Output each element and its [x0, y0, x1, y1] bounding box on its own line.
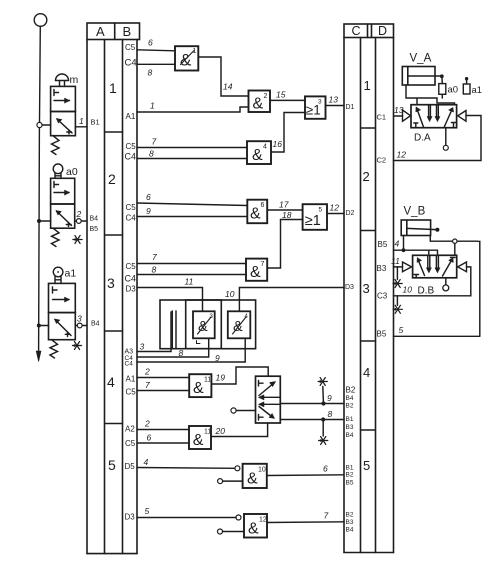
svg-text:19: 19 — [216, 373, 226, 383]
right block columns — [344, 38, 394, 553]
wire 11: D3 row to M1 set input — [137, 288, 203, 312]
wire C5 to gate U12 — [137, 442, 189, 444]
svg-text:14: 14 — [223, 82, 233, 92]
wire 8 out: impulse valve to C column — [280, 419, 344, 421]
svg-text:a0: a0 — [66, 166, 78, 178]
wire: valve m output to B1 — [75, 126, 87, 128]
wire 9: C4 row to M2 output — [137, 338, 245, 362]
and-gate U11 — [189, 374, 211, 397]
stub wire input2 — [223, 531, 245, 533]
wire 8: C4 row to M1 output — [137, 338, 209, 357]
wire 5: B5 to right riser — [394, 335, 480, 337]
svg-text:2: 2 — [264, 93, 268, 100]
wire C5 to gate U11 — [137, 390, 189, 392]
svg-text:8: 8 — [328, 409, 333, 419]
impulse valve left port circle — [231, 408, 236, 413]
wire junction to star below — [322, 422, 324, 437]
svg-text:7: 7 — [152, 137, 157, 147]
stub circle to valve top — [454, 243, 456, 255]
svg-text:B1: B1 — [91, 118, 100, 127]
svg-text:11: 11 — [204, 377, 211, 384]
left block A/B header — [87, 23, 140, 40]
pilot right of D.A — [458, 111, 466, 122]
cylinder V_B piston — [406, 221, 408, 236]
svg-text:C5: C5 — [125, 43, 136, 52]
svg-text:A2: A2 — [125, 425, 135, 434]
exhaust star DB left — [393, 280, 402, 288]
svg-text:m: m — [70, 74, 79, 86]
wire 10: C3 to D.B right pilot — [394, 267, 471, 296]
svg-text:B: B — [123, 24, 132, 39]
wire: supply to valve a1 — [39, 325, 49, 327]
wire D5 to gate U10 — [137, 467, 235, 470]
wire 3: A3 row to memory reset — [137, 312, 171, 352]
wire 14: U1 output to U2 — [198, 57, 248, 96]
svg-text:B5: B5 — [90, 226, 99, 233]
svg-text:6: 6 — [323, 464, 328, 474]
memory outer box K1 — [160, 300, 221, 349]
svg-text:4: 4 — [245, 314, 249, 320]
valve a1 — [49, 267, 76, 358]
wire C5 to gate U1 — [137, 50, 175, 51]
svg-text:C5: C5 — [126, 142, 137, 151]
svg-text:D3: D3 — [125, 513, 136, 522]
svg-text:6: 6 — [261, 202, 265, 209]
svg-text:17: 17 — [279, 200, 289, 210]
wire 18: U7 output to U5 — [267, 220, 302, 269]
svg-text:12: 12 — [259, 517, 267, 524]
svg-text:2: 2 — [144, 367, 150, 377]
port circle a1 output — [77, 323, 82, 328]
svg-text:&: & — [248, 521, 259, 538]
wire: supply to valve m — [42, 124, 51, 126]
vent circle D.A — [443, 145, 448, 150]
left block row dividers — [105, 132, 123, 424]
pipe cylinder VB rod side — [430, 236, 478, 242]
wire: valve a0 output to B4/B5 — [75, 220, 87, 222]
svg-text:12: 12 — [330, 203, 340, 213]
svg-text:B1: B1 — [346, 465, 354, 472]
wire 11: B3 to D.B left pilot — [394, 266, 403, 268]
svg-text:11: 11 — [185, 277, 194, 287]
cylinder V_A rod — [408, 75, 442, 77]
svg-text:V_A: V_A — [410, 53, 432, 65]
wire 17: U6 to OR U5 — [267, 209, 302, 211]
right riser wire — [479, 241, 481, 336]
and-gate U12 — [189, 426, 211, 449]
svg-text:C5: C5 — [126, 262, 137, 271]
svg-text:C: C — [352, 24, 361, 38]
svg-text:1: 1 — [109, 80, 117, 96]
svg-text:&: & — [193, 380, 204, 397]
wire 20: U12 output to impulse valve — [211, 423, 268, 437]
svg-text:C4: C4 — [125, 274, 137, 284]
wire 4: B5 to valve D.B — [394, 250, 438, 255]
svg-text:10: 10 — [258, 467, 266, 474]
svg-text:10: 10 — [225, 289, 235, 299]
svg-text:4: 4 — [395, 239, 400, 249]
svg-text:2: 2 — [144, 419, 150, 429]
svg-text:D2: D2 — [346, 210, 355, 217]
exhaust star a0 — [73, 236, 82, 244]
wire 12: U5 output to D2 — [327, 213, 344, 215]
svg-text:4: 4 — [263, 144, 267, 151]
star stub from wire 11 — [396, 267, 398, 280]
svg-text:A: A — [96, 24, 105, 39]
valve a0 — [51, 164, 75, 247]
or-gate U3 — [305, 96, 326, 118]
svg-text:9: 9 — [146, 206, 151, 216]
valve D.A body — [411, 105, 457, 128]
svg-text:8: 8 — [149, 149, 154, 159]
svg-text:C4: C4 — [125, 152, 137, 162]
supply start circle — [34, 14, 47, 27]
svg-text:8: 8 — [148, 68, 153, 78]
svg-text:D.B: D.B — [418, 286, 435, 297]
wire C5 to gate U7 — [137, 263, 246, 265]
svg-text:D1: D1 — [346, 104, 355, 111]
svg-text:5: 5 — [399, 325, 404, 335]
svg-text:B5: B5 — [378, 240, 388, 249]
wire 7 out to C column — [267, 521, 344, 524]
svg-text:5: 5 — [363, 458, 370, 473]
pipe cylinder VB left port — [403, 236, 405, 251]
svg-text:15: 15 — [276, 90, 286, 100]
svg-text:C5: C5 — [125, 439, 136, 448]
svg-text:12: 12 — [397, 150, 407, 160]
svg-text:B4: B4 — [346, 395, 354, 402]
svg-text:C2: C2 — [377, 156, 387, 165]
svg-text:D3: D3 — [345, 284, 354, 291]
svg-text:A1: A1 — [126, 112, 136, 121]
svg-text:6: 6 — [146, 192, 151, 202]
svg-text:a1: a1 — [65, 268, 77, 280]
wire 13: U3 output to D1 — [326, 105, 345, 107]
svg-text:a1: a1 — [472, 85, 483, 96]
svg-text:5: 5 — [145, 506, 150, 516]
svg-text:13: 13 — [394, 105, 404, 115]
svg-text:B2: B2 — [346, 386, 356, 395]
junction dot wire4 — [402, 248, 406, 252]
cylinder V_B body — [401, 220, 430, 236]
wire: valve a1 output to B4 — [75, 325, 87, 327]
memory outer box K2 — [186, 300, 256, 349]
svg-text:20: 20 — [215, 426, 226, 436]
valve D.B body — [413, 255, 457, 277]
vent stub D.B — [445, 278, 447, 285]
svg-text:&: & — [180, 51, 192, 70]
svg-text:7: 7 — [152, 252, 157, 262]
exhaust star below — [319, 437, 328, 445]
wire: supply to valve a0 — [39, 220, 51, 222]
cylinder V_A piston — [407, 67, 409, 85]
svg-text:3: 3 — [318, 99, 322, 106]
svg-text:8: 8 — [179, 348, 184, 358]
wire D3 to gate U13 — [137, 517, 236, 519]
wire star to junction — [322, 387, 325, 402]
svg-text:B3: B3 — [346, 519, 354, 526]
svg-text:&: & — [252, 147, 263, 164]
star stub from wire 10 — [396, 296, 398, 306]
svg-text:B4: B4 — [346, 432, 354, 439]
valve m — [51, 74, 76, 155]
wire 10: C-column D3 to M2 set input — [239, 288, 344, 312]
right block C/D header — [344, 24, 394, 38]
memory cell M1 — [193, 311, 215, 343]
wire A2 to gate U12 — [137, 429, 189, 431]
and-gate U10 — [243, 464, 267, 488]
junction dot 8 — [321, 417, 325, 421]
exhaust star DB left lower — [393, 305, 402, 313]
svg-text:7: 7 — [324, 511, 329, 521]
svg-text:a0: a0 — [448, 85, 459, 96]
svg-text:B2: B2 — [346, 472, 354, 479]
or-gate U5 — [303, 204, 327, 230]
and-gate U1 — [175, 46, 198, 70]
wire 16: U4 output to U3 — [271, 113, 305, 153]
svg-text:2: 2 — [363, 169, 370, 184]
pipe a0 marker stub — [441, 94, 443, 98]
junction circle: supply to valve m — [37, 122, 42, 127]
svg-text:4: 4 — [107, 374, 115, 390]
svg-text:B4: B4 — [91, 321, 100, 328]
svg-text:B5: B5 — [346, 480, 354, 487]
exhaust star above — [318, 378, 327, 386]
svg-text:D5: D5 — [125, 462, 136, 471]
wire 9 out: impulse valve to C column — [280, 403, 344, 405]
svg-text:C1: C1 — [377, 113, 387, 122]
wire 15: U2 to OR U3 — [270, 99, 305, 101]
svg-text:D: D — [378, 24, 387, 38]
svg-text:1: 1 — [364, 78, 371, 93]
svg-text:3: 3 — [140, 342, 145, 352]
svg-text:C4: C4 — [125, 58, 137, 69]
wire 19: U11 output to impulse valve — [211, 367, 268, 384]
and-gate U2 — [249, 91, 271, 113]
svg-text:2: 2 — [108, 171, 116, 187]
svg-text:&: & — [193, 432, 204, 449]
limit marker a0 — [439, 84, 446, 95]
limit marker a1 — [463, 84, 470, 94]
svg-text:6: 6 — [147, 433, 152, 443]
svg-text:B4: B4 — [90, 216, 99, 223]
svg-text:3: 3 — [77, 314, 82, 324]
wire C5 to gate U4 — [137, 147, 247, 149]
svg-text:B3: B3 — [346, 424, 354, 431]
port circle VB — [453, 239, 457, 243]
svg-text:C3: C3 — [377, 292, 388, 301]
right block row dividers — [361, 128, 376, 430]
svg-text:&: & — [250, 206, 261, 223]
pilot left of D.A — [403, 110, 411, 121]
svg-text:11: 11 — [391, 256, 400, 266]
port circle a0 output — [76, 219, 81, 224]
svg-text:6: 6 — [148, 38, 153, 48]
svg-text:C5: C5 — [126, 203, 137, 212]
svg-text:1: 1 — [193, 48, 197, 55]
supply arrow — [36, 351, 41, 362]
svg-text:13: 13 — [329, 95, 339, 105]
svg-text:&: & — [253, 96, 264, 113]
svg-text:B5: B5 — [377, 330, 387, 339]
vent circle D.B — [443, 285, 449, 291]
svg-text:2: 2 — [76, 209, 82, 219]
svg-text:9: 9 — [327, 393, 332, 403]
svg-text:V_B: V_B — [404, 206, 426, 218]
svg-text:3: 3 — [107, 275, 115, 291]
svg-text:D3: D3 — [126, 285, 137, 294]
memory partition — [172, 311, 176, 349]
svg-text:7: 7 — [261, 261, 265, 268]
wire C4 to gate U4 — [137, 158, 247, 160]
vent line D.A — [445, 128, 447, 146]
svg-text:B1: B1 — [346, 416, 354, 423]
junction dot: supply to valve a1 — [37, 324, 41, 328]
svg-text:4: 4 — [363, 365, 370, 380]
junction dot: supply to valve a0 — [37, 219, 41, 223]
svg-text:18: 18 — [282, 210, 292, 220]
svg-text:1: 1 — [150, 101, 155, 111]
rod end dot — [440, 74, 444, 78]
svg-text:≥1: ≥1 — [305, 213, 321, 229]
left block columns — [87, 40, 137, 554]
pilot right of D.B — [458, 262, 467, 272]
stub wire input2 — [223, 480, 243, 482]
stub wire to port circle — [236, 410, 255, 412]
and-gate U4 — [247, 141, 271, 164]
svg-text:&: & — [247, 471, 258, 488]
and-gate U13 — [244, 514, 267, 538]
wire C4 to gate U1 — [137, 63, 175, 65]
pipe cylinder left port to valve DA — [406, 85, 455, 105]
wire C4 to gate U7 — [137, 274, 246, 276]
negation circle U13 input — [236, 515, 241, 520]
svg-text:D.A: D.A — [414, 133, 431, 144]
cylinder V_A body — [402, 67, 435, 86]
wire 13: C1 to D.A pilot — [394, 115, 403, 117]
svg-text:16: 16 — [273, 139, 283, 149]
svg-text:C5: C5 — [126, 388, 137, 397]
svg-text:A1: A1 — [126, 375, 136, 384]
svg-text:C4: C4 — [125, 361, 134, 368]
memory cell M2 — [228, 311, 251, 338]
svg-text:C4: C4 — [126, 214, 137, 223]
supply rail wire — [39, 26, 41, 352]
wire 12: C2 to D.A right pilot — [394, 116, 482, 161]
impulse valve VI — [256, 376, 281, 423]
svg-text:B2: B2 — [346, 403, 354, 410]
svg-text:5: 5 — [319, 207, 323, 214]
and-gate U6 — [247, 200, 267, 224]
wire C4 to gate U6 — [137, 216, 247, 218]
wire A1 to gate U2 — [137, 107, 249, 112]
svg-text:7: 7 — [145, 380, 150, 390]
pilot left of D.B — [403, 262, 412, 272]
svg-text:B3: B3 — [377, 264, 387, 273]
svg-text:B4: B4 — [346, 527, 354, 534]
rod end dot VB — [435, 228, 439, 232]
svg-text:9: 9 — [215, 353, 220, 363]
svg-text:10: 10 — [403, 285, 413, 295]
wire C5 to gate U6 — [137, 203, 247, 206]
svg-text:1: 1 — [79, 116, 84, 126]
svg-text:8: 8 — [152, 265, 157, 275]
cylinder V_B rod — [407, 228, 436, 229]
svg-text:3: 3 — [363, 281, 370, 296]
svg-text:11: 11 — [204, 429, 211, 436]
and-gate U7 — [246, 259, 267, 281]
svg-text:B2: B2 — [346, 512, 354, 519]
svg-text:4: 4 — [144, 457, 149, 467]
svg-text:5: 5 — [108, 457, 116, 473]
svg-text:3: 3 — [210, 314, 214, 320]
wire 6 out to C column — [267, 474, 344, 477]
negation circle U10 input — [235, 466, 240, 471]
wire A1 to gate U11 — [137, 377, 189, 379]
junction dot 9 — [321, 401, 325, 405]
negation circle U13 input2 — [218, 529, 223, 534]
negation circle U10 input2 — [218, 479, 223, 484]
exhaust star a1 — [72, 342, 81, 350]
svg-text:&: & — [250, 264, 261, 281]
